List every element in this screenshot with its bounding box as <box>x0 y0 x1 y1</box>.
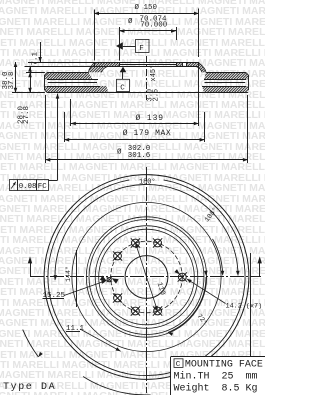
runout FCF leader <box>49 180 58 182</box>
hatch right top plate <box>204 72 248 79</box>
brake disc section: braking band outline <box>44 75 46 91</box>
band top extension left <box>26 72 45 74</box>
angular dimension arc bottom <box>83 377 151 395</box>
svg-text:FC: FC <box>38 183 47 191</box>
left neck outer wall <box>89 62 96 72</box>
dimension 15.25 leader <box>64 281 107 296</box>
front view center bore circle <box>125 256 168 299</box>
dimension 11.1 leader <box>80 329 121 351</box>
locating hole squeeze arrows <box>100 276 107 282</box>
left neck inner wall <box>102 66 109 72</box>
svg-text:Weight 8.5 Kg: Weight 8.5 Kg <box>174 382 258 394</box>
dimension dia179 line <box>64 139 204 141</box>
bore far-side chamfer line <box>120 64 177 66</box>
svg-text:144°: 144° <box>64 266 73 282</box>
svg-text:F: F <box>139 45 144 53</box>
wheel bolt hole at 216 deg <box>114 294 122 302</box>
dimension dia302 line <box>45 159 248 161</box>
right neck hatch <box>196 62 207 72</box>
front view vertical centerline <box>146 167 148 393</box>
dimension 7.1 lower arrow <box>30 67 32 72</box>
datum C box <box>117 79 130 91</box>
mounting face datum box <box>174 359 183 368</box>
svg-text:Ø 179 MAX: Ø 179 MAX <box>123 129 172 138</box>
svg-text:72°: 72° <box>195 312 210 327</box>
datum F triangle <box>116 42 123 50</box>
left neck hatch <box>89 62 109 72</box>
bore left wall <box>119 62 121 66</box>
svg-text:x45°: x45° <box>149 65 158 82</box>
dimension dia302 extension lines <box>45 95 47 163</box>
datum F connector <box>123 46 136 48</box>
svg-text:110: 110 <box>155 281 167 296</box>
front view braking surface inner circle <box>72 202 221 351</box>
dimension 7.1 line <box>40 42 42 62</box>
mounting face box background <box>171 357 265 395</box>
hatch left bottom plate <box>45 86 109 93</box>
front view hub circle b <box>99 229 195 325</box>
front view horizontal centerline <box>30 276 261 278</box>
band bottom extension left <box>12 92 45 94</box>
svg-text:Min.TH 25 mm: Min.TH 25 mm <box>174 370 258 382</box>
hatch right bottom plate <box>202 86 248 93</box>
front view flange circle b <box>89 220 204 335</box>
front view hub circle a <box>95 226 198 329</box>
angular dimension arc (36) outer <box>23 330 39 357</box>
hatch left top plate <box>45 72 93 79</box>
front view bolt circle (dashed) <box>111 241 183 313</box>
dimension 110 line <box>135 243 157 311</box>
dimension dia139 extension lines <box>70 99 72 126</box>
hat hatch right shelf a <box>176 62 182 66</box>
dimension dia70 line <box>120 30 177 32</box>
dimension dia179 extension lines <box>64 112 66 142</box>
front view flange circle a <box>86 217 206 337</box>
right neck inner wall <box>196 66 203 72</box>
svg-text:MOUNTING FACE: MOUNTING FACE <box>185 359 263 370</box>
dimension 14.2x7 leader <box>187 279 226 304</box>
locating hole slot in hat <box>182 62 184 66</box>
dimension dia139 line <box>71 123 199 125</box>
hat bottom extension line left <box>25 66 120 68</box>
wheel bolt hole at 72 deg <box>154 239 162 247</box>
svg-text:Type DA: Type DA <box>3 382 56 393</box>
svg-text:C: C <box>176 361 181 369</box>
runout FCF arrow symbol <box>11 182 16 189</box>
bore right wall <box>176 62 178 66</box>
svg-text:Ø 139: Ø 139 <box>136 114 165 123</box>
svg-text:70.000: 70.000 <box>140 22 168 30</box>
svg-text:2.5: 2.5 <box>152 89 160 102</box>
svg-text:180°: 180° <box>139 178 156 187</box>
runout FCF box <box>10 180 49 191</box>
svg-text:Ø: Ø <box>117 148 122 157</box>
dimension dia70 extension lines <box>119 27 121 61</box>
hat hatch left shelf <box>95 62 120 66</box>
dimension dia150 extension lines <box>94 10 96 61</box>
vertical line to mounting-face box <box>250 253 252 357</box>
vertical reference line left of hub <box>76 250 78 307</box>
svg-text:7.1: 7.1 <box>32 52 40 66</box>
section axis centerline <box>146 56 148 100</box>
svg-text:Ø 150: Ø 150 <box>135 3 158 12</box>
dimension 180deg right riser <box>259 263 261 277</box>
wheel bolt hole at 0 deg <box>178 273 186 281</box>
dimension dia150 line <box>94 13 199 15</box>
svg-text:0.08: 0.08 <box>19 183 37 191</box>
dimension 180deg left riser <box>30 263 32 277</box>
wheel bolt hole at 108 deg <box>132 239 140 247</box>
svg-text:Ø: Ø <box>128 17 133 26</box>
front view outer circle <box>44 175 249 380</box>
right neck outer wall <box>198 62 206 72</box>
vent slot edges <box>47 79 98 81</box>
wheel bolt hole at 288 deg <box>154 307 162 315</box>
hat top extension line left <box>28 62 95 64</box>
svg-text:27.8: 27.8 <box>23 106 31 124</box>
hat plate top and bottom edges <box>95 62 198 64</box>
front view outer chamfer circle <box>48 180 147 376</box>
datum C leader arrow <box>120 67 127 73</box>
svg-text:C: C <box>120 84 125 92</box>
wheel bolt hole at 144 deg <box>114 252 122 260</box>
angular dimension arc (144) end <box>213 239 223 274</box>
dimension 38 line <box>15 62 17 93</box>
svg-text:301.6: 301.6 <box>128 152 151 160</box>
datum F box <box>136 40 150 53</box>
angular dimension arc (72) <box>168 277 206 333</box>
locating hole (small) <box>107 278 111 282</box>
wheel bolt hole at 252 deg <box>132 307 140 315</box>
hat hatch right shelf b <box>186 62 198 66</box>
dimension 28 line <box>30 72 32 93</box>
angular dimension arc (108/180) <box>55 184 238 280</box>
svg-text:14.2 (x7): 14.2 (x7) <box>226 303 263 311</box>
watermark MAGNETI MARELLI <box>0 0 265 1</box>
svg-text:37.8: 37.8 <box>8 71 16 89</box>
